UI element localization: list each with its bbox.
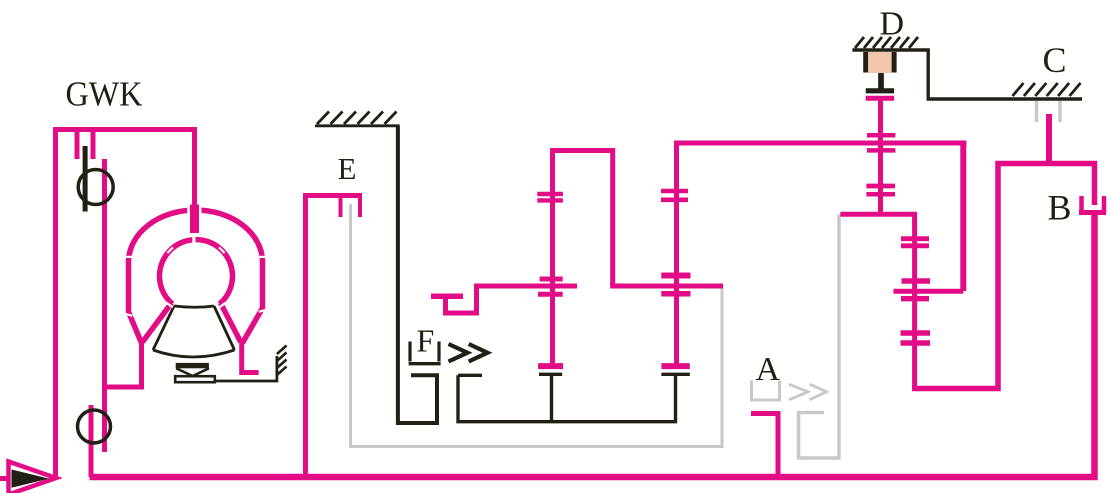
svg-text:C: C bbox=[1043, 40, 1067, 80]
svg-text:GWK: GWK bbox=[66, 74, 143, 113]
svg-text:F: F bbox=[417, 323, 435, 359]
svg-text:A: A bbox=[756, 351, 781, 388]
svg-text:E: E bbox=[338, 151, 357, 186]
svg-text:D: D bbox=[880, 6, 905, 43]
svg-text:B: B bbox=[1048, 188, 1072, 228]
